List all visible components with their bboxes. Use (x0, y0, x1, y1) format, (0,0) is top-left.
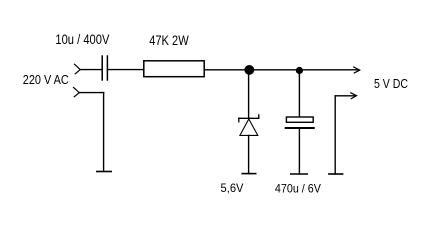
svg-text:5 V DC: 5 V DC (374, 76, 408, 91)
svg-text:470u / 6V: 470u / 6V (275, 182, 321, 196)
svg-text:220 V AC: 220 V AC (23, 72, 69, 87)
svg-text:5,6V: 5,6V (221, 181, 244, 195)
svg-text:47K 2W: 47K 2W (149, 33, 189, 48)
svg-text:10u / 400V: 10u / 400V (55, 32, 109, 47)
